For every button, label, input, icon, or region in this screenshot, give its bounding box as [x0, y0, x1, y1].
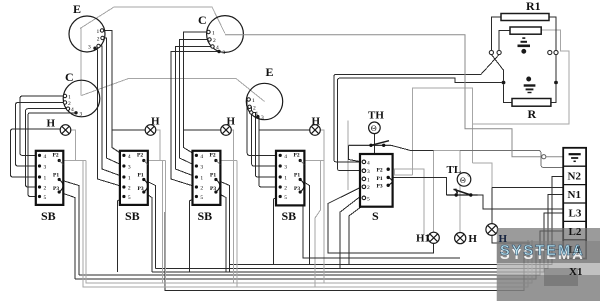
svg-text:1: 1 — [367, 177, 370, 183]
svg-text:1: 1 — [212, 31, 215, 37]
wire E1 pin4 down to SB2 pin2 — [95, 48, 124, 187]
svg-text:P3: P3 — [377, 184, 383, 190]
wire gray lamp3 to SB3 P2 — [219, 130, 234, 161]
svg-text:4: 4 — [216, 45, 219, 51]
wire bus from SB2 P3 — [152, 213, 563, 272]
svg-text:E: E — [73, 2, 81, 16]
wire gray lamp H riser — [434, 150, 461, 232]
svg-text:1: 1 — [97, 29, 100, 35]
svg-text:L1: L1 — [569, 244, 582, 256]
lamp H1 (burner 1) — [60, 125, 71, 136]
wire lamp H1row feed and SB1 pin1 — [11, 129, 61, 177]
wire earth lead with connector circle — [225, 35, 542, 157]
svg-text:H: H — [151, 116, 160, 128]
wire E1 pin2 down to SB2 pin3 — [103, 38, 124, 166]
svg-text:P1: P1 — [138, 173, 144, 179]
resistor R1 — [501, 14, 549, 21]
wire lamp3 to terminal N1 — [492, 187, 563, 223]
wire TH vertical to S top — [373, 134, 375, 154]
svg-text:SB: SB — [198, 209, 213, 223]
svg-text:4: 4 — [200, 154, 203, 160]
svg-text:P2: P2 — [53, 153, 59, 159]
burner E1 — [69, 2, 105, 52]
wire lamp4 left feed — [259, 129, 310, 131]
terminal block body — [563, 148, 586, 259]
svg-text:H: H — [499, 233, 508, 245]
svg-text:L2: L2 — [569, 226, 582, 238]
svg-text:2: 2 — [200, 185, 203, 191]
svg-text:2: 2 — [44, 185, 47, 191]
chassis symbol top — [518, 38, 531, 53]
svg-text:P2: P2 — [137, 153, 143, 159]
wire C1 pin2 down to SB3 pin3 — [180, 40, 210, 167]
wire SB2 P3 drop — [144, 192, 152, 272]
wire gray to terminal N2 — [460, 150, 563, 167]
svg-text:R1: R1 — [526, 0, 541, 13]
svg-text:1: 1 — [252, 98, 255, 104]
wire E2 pin3 to SB4 pin1 — [251, 113, 280, 178]
wire C2 pin2 to SB1 pin3 — [16, 103, 66, 167]
svg-text:5: 5 — [200, 195, 203, 201]
wire contact to R left end — [504, 84, 513, 102]
svg-text:2: 2 — [97, 37, 100, 43]
svg-text:N1: N1 — [568, 189, 581, 201]
wire SB1 P3 drop — [59, 192, 75, 279]
svg-text:5: 5 — [367, 196, 370, 202]
wire TH switch right to lamps riser — [391, 145, 434, 150]
svg-text:4: 4 — [44, 154, 47, 160]
svg-text:P1: P1 — [294, 173, 300, 179]
wire lamp2 left feed — [112, 129, 145, 131]
contact pair right — [548, 50, 552, 54]
svg-text:P1: P1 — [53, 173, 59, 179]
wire gray vertical E1 to C2 center — [80, 29, 82, 96]
wire bus from SB1 P1 — [79, 231, 563, 275]
svg-text:1: 1 — [284, 175, 287, 181]
svg-text:TH: TH — [368, 110, 384, 122]
svg-text:C: C — [65, 70, 74, 84]
svg-text:°: ° — [378, 124, 380, 129]
resistor R — [512, 99, 551, 107]
wire gray S P2 to gray riser — [390, 169, 413, 175]
svg-text:2: 2 — [367, 185, 370, 191]
svg-text:5: 5 — [44, 195, 47, 201]
wire C2 pin1 to SB1 pin4 — [20, 96, 65, 155]
svg-text:Θ: Θ — [460, 176, 466, 185]
wire C2 pin3 to SB1 pin2 — [26, 109, 69, 187]
svg-text:5: 5 — [128, 195, 131, 201]
wire gray box left riser — [413, 88, 473, 175]
svg-text:1: 1 — [200, 175, 203, 181]
svg-text:H: H — [227, 116, 236, 128]
wire TL right to terminal L3 — [471, 195, 563, 209]
svg-text:4: 4 — [128, 154, 131, 160]
svg-text:P2: P2 — [294, 153, 300, 159]
wire C1 pin1 down to SB3 pin4 — [184, 32, 209, 155]
svg-text:Θ: Θ — [371, 124, 377, 133]
earth symbol bottom — [524, 77, 536, 92]
wire gray SB2 P2 drops — [160, 161, 166, 287]
svg-text:X1: X1 — [569, 266, 582, 278]
svg-text:P2: P2 — [377, 168, 383, 174]
svg-text:H: H — [468, 233, 477, 245]
svg-text:C: C — [198, 13, 207, 27]
wire gray S P2 down drop — [395, 169, 425, 234]
svg-text:3: 3 — [261, 115, 264, 121]
svg-text:4: 4 — [284, 154, 287, 160]
wire lamp3 left feed — [184, 129, 221, 131]
switch block SB1 — [36, 151, 64, 223]
wire gray SB1 P2 junction to drops — [76, 160, 87, 162]
lamp H3 oven light — [486, 224, 498, 236]
lamp H oven — [455, 233, 466, 244]
wire SB4 P1 drop — [300, 180, 309, 265]
wire S pin4 bus to R elements — [334, 55, 499, 162]
wire R2 left end down — [499, 31, 510, 51]
svg-text:3: 3 — [367, 169, 370, 175]
svg-text:2: 2 — [213, 38, 216, 44]
TL switch contact — [446, 189, 477, 195]
svg-text:3: 3 — [128, 164, 131, 170]
svg-text:S: S — [372, 209, 379, 223]
wire X crossing to R lower contact — [491, 55, 503, 81]
resistor R2 (second grill element) — [510, 27, 541, 34]
wire gray bus upper — [86, 161, 532, 283]
svg-text:P1: P1 — [210, 173, 216, 179]
wire C1 pin4 down to SB3 pin2 — [171, 52, 219, 188]
wire gray capillary TH — [347, 121, 349, 190]
wire bus from SB2 P1 — [155, 195, 563, 269]
wire R1 left end down — [491, 17, 501, 50]
wire lowest bus — [165, 212, 524, 291]
svg-text:H: H — [47, 118, 56, 130]
svg-text:H1: H1 — [416, 233, 430, 245]
wire gray lamp H1 riser — [433, 150, 435, 232]
wire gray SB3 P2 drops — [234, 161, 238, 287]
svg-text:1: 1 — [128, 175, 131, 181]
svg-text:SB: SB — [125, 209, 140, 223]
wire S P1 to TL switch — [390, 177, 446, 195]
wire TH switch left to S pin4 — [349, 145, 362, 162]
wire SB1 P1 drop — [59, 180, 79, 275]
svg-text:4: 4 — [71, 107, 74, 113]
svg-text:2: 2 — [128, 185, 131, 191]
wire SB3 P3 drop — [216, 192, 226, 272]
wire gray lamp1 to SB1 P2 — [61, 130, 76, 161]
lamp H2 (burner 2) — [145, 125, 156, 136]
svg-text:1: 1 — [44, 175, 47, 181]
wire SB2 P1 drop — [144, 180, 156, 269]
svg-text:4: 4 — [367, 160, 370, 166]
wire E2 pin1 to SB4 pin4 — [247, 100, 280, 156]
wire C1 pin3 down to SB3 pin1 — [176, 47, 213, 178]
wire bus from SB1 P3 — [75, 250, 563, 279]
svg-text:SB: SB — [282, 209, 297, 223]
wire leader E1 to top bus — [80, 7, 225, 34]
junction contact lower left — [502, 81, 506, 85]
svg-text:R: R — [528, 107, 537, 121]
svg-text:3: 3 — [44, 164, 47, 170]
wire E2 pin4 to SB4 pin2 — [258, 117, 280, 187]
lamp H4 (burner 4) — [310, 125, 321, 136]
svg-text:5: 5 — [284, 195, 287, 201]
burner C2 — [63, 70, 100, 118]
wire bus N (SB3 P1 to terminal riser) — [230, 176, 564, 271]
switch block SB3 — [193, 151, 221, 223]
wire lamp3 bottom drop — [492, 235, 530, 243]
switch block SB2 — [120, 151, 148, 223]
wire right contact column — [551, 55, 556, 103]
wire gray bus lower — [83, 161, 528, 287]
burner C1 — [198, 13, 243, 56]
wire supply riser to SB3 pin5 — [190, 197, 197, 272]
wire SB3 P1 drop — [216, 180, 230, 272]
wire gray lamp2 to SB2 P2 — [146, 130, 161, 161]
svg-text:3: 3 — [223, 50, 226, 56]
svg-text:2: 2 — [284, 185, 287, 191]
wire R1 right end down — [549, 17, 556, 50]
svg-text:3: 3 — [88, 45, 91, 51]
burner E2 — [246, 65, 282, 121]
svg-text:SB: SB — [41, 209, 56, 223]
wire SB4 P3 to lamp H — [300, 192, 460, 258]
svg-text:3: 3 — [80, 112, 83, 118]
wire E1 pin1 down to SB2 pin4 — [102, 31, 124, 156]
svg-text:3: 3 — [284, 164, 287, 170]
svg-text:P1: P1 — [377, 176, 383, 182]
svg-text:L3: L3 — [569, 207, 582, 219]
svg-text:E: E — [266, 65, 274, 79]
earth symbol in first cell — [569, 154, 581, 161]
svg-text:1: 1 — [68, 95, 71, 101]
wire E2 pin2 to SB4 pin3 — [250, 107, 281, 166]
svg-text:°: ° — [468, 176, 470, 181]
svg-text:3: 3 — [200, 164, 203, 170]
wire gray to lamp3 oven lamp — [473, 163, 492, 188]
contact pair left — [489, 50, 558, 54]
wire S pin3 bus to R elements lower — [338, 78, 502, 171]
wire S pin5 drop — [340, 195, 362, 268]
wire gray lamp4 to SB4 P2 — [302, 130, 324, 161]
TH switch contact — [349, 141, 391, 146]
junction contact lower right — [554, 81, 558, 85]
switch block SB4 — [276, 151, 304, 223]
wire C2 pin4 to SB1 pin5 — [28, 113, 76, 197]
wire C2 center to E2 center — [82, 79, 265, 102]
wire supply riser to SB4 pin5 — [274, 197, 281, 265]
wire S P3 drop — [349, 185, 390, 264]
wire E1 pin3 down to SB2 pin1 — [99, 46, 124, 177]
svg-text:P2: P2 — [210, 153, 216, 159]
svg-text:4: 4 — [255, 111, 258, 117]
wire H1 lamp to S pin2 — [328, 187, 434, 253]
lamp H1 oven — [428, 232, 439, 243]
lamp H3 (burner 3) — [221, 125, 232, 136]
wire gray SB4 P2 drops — [315, 161, 324, 287]
wire chassis of R2 element to gray box — [473, 30, 570, 124]
svg-text:H: H — [312, 116, 321, 128]
svg-text:N2: N2 — [568, 171, 582, 183]
wire supply riser to SB2 pin5 — [118, 197, 124, 272]
